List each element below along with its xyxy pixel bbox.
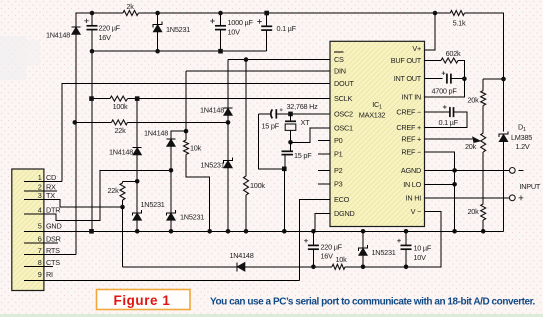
svg-text:INT OUT: INT OUT [394,74,422,83]
svg-text:P2: P2 [334,166,343,175]
svg-text:1N4148: 1N4148 [144,128,168,137]
svg-text:V −: V − [411,207,421,216]
svg-text:DSR: DSR [46,235,61,244]
svg-text:INPUT: INPUT [520,182,541,191]
zener D1 LM385 1.2V [499,131,508,137]
svg-text:DGND: DGND [334,209,355,218]
wire [406,212,441,267]
svg-text:6: 6 [38,235,42,244]
svg-text:8: 8 [38,258,42,267]
wire [136,220,138,231]
svg-text:XT: XT [301,118,311,127]
svg-text:1N5231: 1N5231 [180,212,204,221]
svg-text:SCLK: SCLK [334,94,352,103]
svg-text:20k: 20k [467,96,479,105]
wire [136,155,138,181]
svg-text:15 pF: 15 pF [294,151,312,160]
wire CREF+ [425,112,467,128]
svg-text:GND: GND [46,221,61,230]
wire P3 stub [318,183,330,185]
node terminal minus [509,168,515,174]
wire CS [228,59,330,61]
wire V+ riser [425,13,436,50]
wire [220,30,222,52]
svg-text:CD: CD [46,173,56,182]
svg-text:1000 µF: 1000 µF [228,18,254,27]
wire [425,197,510,199]
wire cap return [259,114,285,169]
wire TX to neg rail [122,207,124,267]
svg-text:2k: 2k [126,2,134,11]
wire [136,181,138,213]
svg-text:0.1 µF: 0.1 µF [277,24,297,33]
wire [482,106,484,134]
svg-text:16V: 16V [321,252,334,261]
wire [405,231,407,245]
svg-text:P1: P1 [334,150,343,159]
wire P1 stub [318,153,330,155]
wire P0 stub [318,140,330,142]
wire [405,249,407,267]
wire [482,152,484,204]
wire [425,169,510,171]
svg-text:LM385: LM385 [511,133,532,142]
svg-text:22k: 22k [107,186,119,195]
wire GND rail [24,230,504,232]
wire to gnd [283,169,285,232]
resistor R1 2k [123,11,138,16]
wire [425,152,455,231]
wire ground rail upper [92,50,267,52]
wire [136,99,138,148]
wire P2 stub [318,169,330,171]
svg-text:5.1k: 5.1k [453,19,466,28]
wire INT OUT [425,77,443,79]
svg-text:P0: P0 [334,136,343,145]
wire [300,200,331,281]
wire [259,113,271,115]
wire 10k to gnd [186,155,210,232]
wire [123,266,238,268]
svg-text:You can use a PC’s serial port: You can use a PC’s serial port to commun… [210,297,536,308]
wire [483,78,503,80]
wire [503,142,505,232]
wire [482,220,484,231]
svg-text:Figure 1: Figure 1 [114,293,171,308]
svg-text:CREF −: CREF − [396,108,421,117]
wire OSC1 [291,128,331,143]
wire [245,266,332,268]
svg-text:22k: 22k [114,126,126,135]
wire [75,121,112,123]
svg-text:220 µF: 220 µF [99,24,121,33]
svg-text:15 pF: 15 pF [262,122,280,131]
wire [245,195,247,231]
wire [227,168,229,231]
wire [345,266,441,268]
svg-text:REF +: REF + [401,135,421,144]
wire [227,60,229,108]
wire [185,131,187,140]
wire [482,79,484,91]
wire DIN [186,70,330,72]
svg-text:CS: CS [334,55,344,64]
diode D8 1N4148 [133,147,142,149]
diode D4 1N4148 [224,107,233,109]
svg-text:100k: 100k [250,181,265,190]
wire [170,220,172,231]
op-amp U1 MAX132 ADC body [330,41,425,226]
diode D2 1N4148 [72,26,81,28]
wire [122,181,124,183]
svg-text:1N4148: 1N4148 [109,147,133,156]
wire pin9 RI to ECO [24,280,300,282]
wire [171,131,186,139]
wire [185,71,187,131]
svg-text:DIN: DIN [334,67,346,76]
svg-text:20k: 20k [467,207,479,216]
svg-text:IN LO: IN LO [403,180,421,189]
svg-text:1.2V: 1.2V [516,142,530,151]
wire [122,200,124,207]
wire [266,13,268,26]
svg-text:32,768 Hz: 32,768 Hz [287,102,319,111]
wire [425,60,442,62]
wire SCLK line [128,98,331,100]
wire [91,30,93,52]
wire [290,114,292,121]
svg-text:3: 3 [38,191,42,200]
svg-text:10k: 10k [190,144,202,153]
svg-text:OSC1: OSC1 [334,123,353,132]
svg-text:BUF OUT: BUF OUT [391,56,422,65]
node GND rail junctions [89,229,94,234]
wire pin4 DTR to node D [24,170,171,220]
svg-text:16V: 16V [99,33,112,42]
wire [227,116,229,123]
svg-text:MAX132: MAX132 [359,111,386,120]
svg-text:RI: RI [46,270,53,279]
wire [157,32,159,51]
zener D5 1N5231 [224,158,233,164]
svg-text:DOUT: DOUT [334,79,354,88]
wire [315,214,330,232]
svg-text:P3: P3 [334,180,343,189]
resistor R2 5.1k [450,11,464,16]
svg-text:1N5231: 1N5231 [166,25,190,34]
svg-text:1: 1 [38,173,42,182]
svg-text:1N5231: 1N5231 [372,248,396,257]
wire [266,30,268,51]
svg-text:0.1 µF: 0.1 µF [439,118,459,127]
svg-text:REF −: REF − [401,148,421,157]
svg-text:DTR: DTR [46,206,60,215]
wire CREF- [425,111,450,113]
svg-text:20k: 20k [465,142,477,151]
wire ground riser left [91,51,93,231]
svg-text:V+: V+ [412,44,421,53]
svg-text:1N4148: 1N4148 [229,251,253,260]
svg-text:1N4148: 1N4148 [200,106,224,115]
potentiometer R10 20k [481,133,486,152]
wire [362,256,364,267]
wire pin6 DSR stub [24,242,58,244]
wire [157,13,159,25]
svg-text:10V: 10V [414,253,427,262]
svg-text:10V: 10V [228,28,241,37]
svg-text:INT IN: INT IN [402,92,421,101]
wire top rail +V [138,12,450,14]
svg-text:CREF +: CREF + [396,123,421,132]
wire CD to DOUT [62,84,330,182]
wire [91,13,93,26]
wire [290,130,292,142]
diode D10 1N4148 [236,262,238,271]
wire [220,13,222,26]
wire pin8 CTS stub [24,266,53,268]
svg-text:7: 7 [38,246,42,255]
svg-text:1N4148: 1N4148 [46,31,70,40]
wire [312,249,314,267]
svg-text:4: 4 [38,206,42,215]
wire [170,147,172,171]
wire pin7 RTS [24,254,76,256]
wire pin3 TX to 22k node [24,200,123,208]
svg-text:10 µF: 10 µF [414,244,432,253]
svg-text:100k: 100k [113,102,128,111]
wire [123,180,138,182]
wire [451,78,465,80]
connector J1 DB9 body [12,169,44,291]
wire [170,170,172,213]
wire [425,79,465,97]
wire RTS riser [75,35,77,255]
svg-text:CTS: CTS [46,258,60,267]
svg-text:602k: 602k [446,49,461,58]
svg-text:1N5231: 1N5231 [141,200,165,209]
svg-text:220 µF: 220 µF [321,243,343,252]
svg-text:TX: TX [46,191,55,200]
wire pin1 CD stub [24,181,62,183]
figure label box [97,290,191,310]
wire [425,183,455,185]
pin CS overline [334,51,344,53]
zener D9 1N5231 [133,210,142,216]
wire [312,231,314,245]
wire REF+ wiper [425,138,473,140]
wire OSC2 [276,113,330,115]
wire [245,60,247,176]
svg-text:1N5231: 1N5231 [200,160,224,169]
wire [362,231,364,248]
resistor R11 20k [481,204,486,220]
resistor R6 10k [184,140,189,155]
svg-text:RTS: RTS [46,246,60,255]
svg-text:ECO: ECO [334,195,350,204]
wire to D1 cathode [465,13,504,132]
wire top rail left [76,13,123,27]
wire to CS clamp node [128,121,229,123]
svg-text:OSC2: OSC2 [334,109,353,118]
svg-text:4700 pF: 4700 pF [432,87,458,96]
wire [227,122,229,160]
svg-text:AGND: AGND [401,166,421,175]
svg-text:IN HI: IN HI [406,193,422,202]
svg-text:5: 5 [38,221,42,230]
svg-text:10k: 10k [335,255,347,264]
resistor R12 10k [332,264,345,269]
wire [458,61,464,80]
node terminal plus [509,195,515,201]
wire pin2 RX stub [24,190,57,192]
node top rail junctions [90,11,95,16]
wire [92,98,111,100]
wire [290,142,292,151]
svg-text:9: 9 [38,270,42,279]
wire [284,155,286,169]
